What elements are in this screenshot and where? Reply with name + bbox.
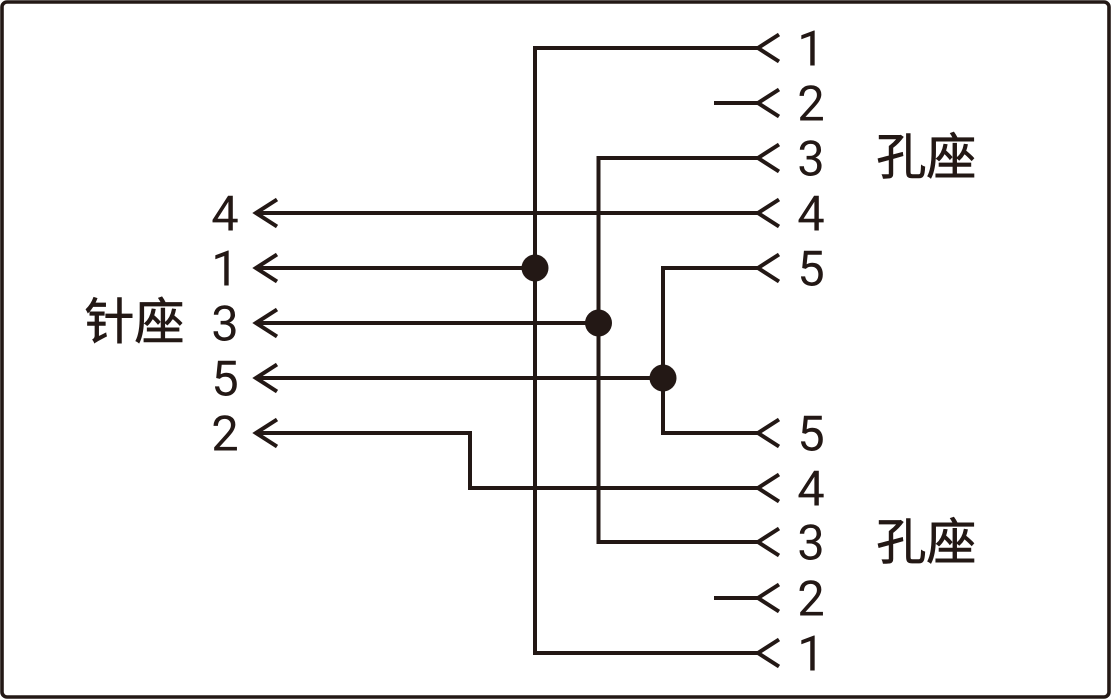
connector label 孔座 (hole socket, top right) — [878, 132, 974, 178]
pin 2 (针座) arrowhead — [256, 420, 277, 447]
wire: 针座 pin 1 tap into vertical bus x=535 — [256, 266, 535, 270]
connector label 孔座 (hole socket, bottom right) — [878, 517, 974, 563]
pin 5 (top 孔座) number label — [801, 251, 823, 286]
pin 2 (top 孔座) arrowhead — [758, 90, 779, 117]
pin 5 (bottom 孔座) number label — [801, 416, 823, 451]
pin 1 (针座) number label — [215, 251, 228, 286]
wire: 针座 pin 2 to bottom 孔座 pin 4 with jog at x=470 — [256, 433, 758, 488]
pin 4 (针座) arrowhead — [256, 200, 277, 227]
pin 3 (bottom 孔座) arrowhead — [758, 529, 779, 556]
pin 4 (针座) number label — [213, 196, 238, 231]
pin 3 (top 孔座) arrowhead — [758, 145, 779, 172]
pin 1 (top 孔座) number label — [801, 31, 814, 66]
pin 1 (bottom 孔座) number label — [801, 636, 814, 671]
wire: bottom 孔座 pin 2 stub (not connected) — [714, 596, 758, 600]
junction dot: net of pin 1 at (535,268) — [522, 255, 549, 282]
pin 5 (针座) number label — [215, 361, 237, 396]
pin 5 (top 孔座) arrowhead — [758, 255, 779, 282]
wire: top 孔座 pin 5 to bottom 孔座 pin 5 via vertical x=663 — [663, 268, 758, 433]
pin 1 (bottom 孔座) arrowhead — [758, 640, 779, 667]
pin 2 (针座) number label — [213, 415, 236, 450]
pin 5 (针座) arrowhead — [256, 365, 277, 392]
pin 3 (针座) number label — [214, 305, 236, 341]
junction dot: net of pin 5 at (663,378) — [650, 365, 677, 392]
wire: top 孔座 pin 3 to bottom 孔座 pin 3 via vertical x=598.5 — [599, 158, 759, 542]
pin 3 (针座) arrowhead — [256, 310, 277, 337]
pin 2 (bottom 孔座) number label — [799, 580, 822, 615]
pin 4 (top 孔座) arrowhead — [758, 200, 779, 227]
pin 3 (top 孔座) number label — [800, 140, 822, 176]
pin 4 (bottom 孔座) number label — [799, 471, 824, 506]
pin 4 (top 孔座) number label — [799, 196, 824, 231]
wire: top 孔座 pin 1 to bottom 孔座 pin 1 via vertical bus x=535 — [535, 48, 758, 653]
pin 5 (bottom 孔座) arrowhead — [758, 420, 779, 447]
pin 1 (针座) arrowhead — [256, 255, 277, 282]
pin 4 (bottom 孔座) arrowhead — [758, 475, 779, 502]
junction dot: net of pin 3 at (598.5,323) — [585, 310, 612, 337]
pin 1 (top 孔座) arrowhead — [758, 35, 779, 62]
wire: 针座 pin 5 tap into vertical x=663 — [256, 376, 663, 380]
connector label 针座 (pin socket, left) — [86, 297, 182, 343]
wire: 针座 pin 3 tap into vertical x=598.5 — [256, 321, 599, 325]
pin 2 (top 孔座) number label — [799, 85, 822, 120]
pin 3 (bottom 孔座) number label — [800, 524, 822, 560]
wire: 针座 pin 4 straight across to top 孔座 pin 4 — [256, 211, 758, 215]
wire: top 孔座 pin 2 stub (not connected) — [714, 101, 758, 105]
pin 2 (bottom 孔座) arrowhead — [758, 585, 779, 612]
